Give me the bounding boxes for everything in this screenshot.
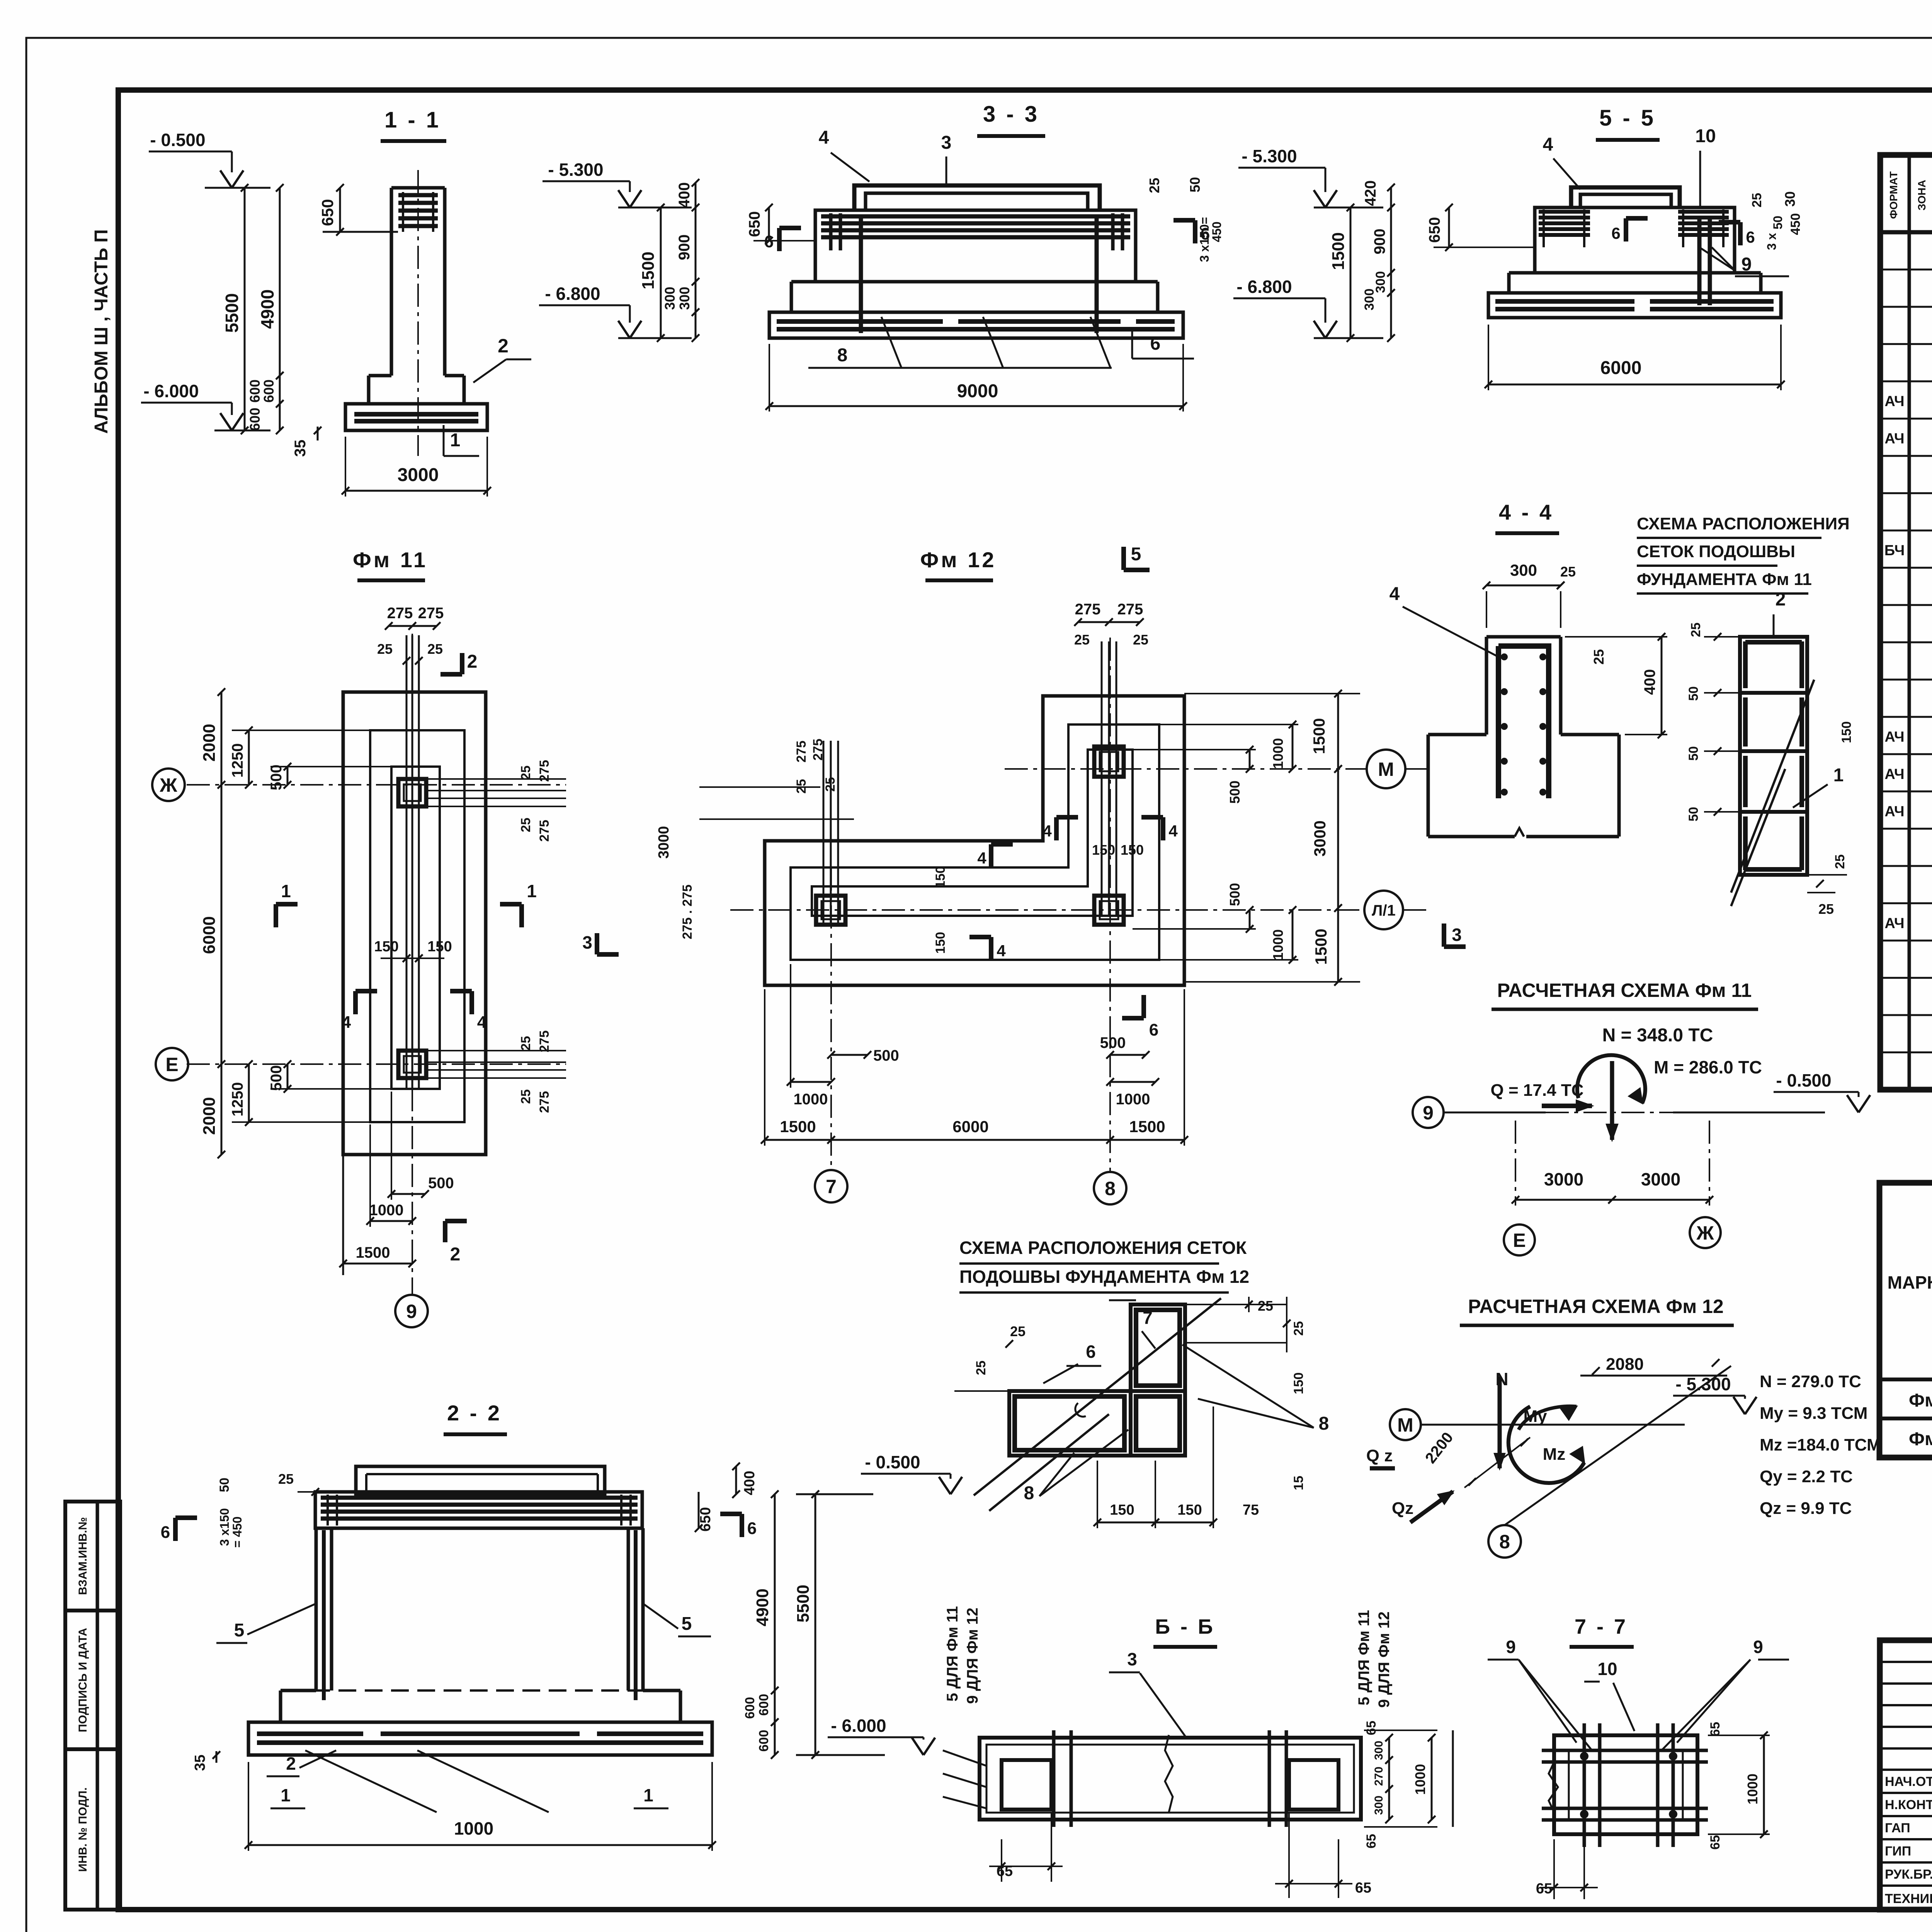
Фм 12 column squares: [1094, 747, 1124, 777]
Фм 11 step rectangle: [370, 730, 464, 1122]
section 5-5 step: [1507, 273, 1511, 293]
section markers 4 fm12: [1054, 817, 1059, 840]
svg-text:35: 35: [192, 1755, 208, 1771]
schema Фм12 diagonal leaders: [974, 1298, 1221, 1495]
dim 400 900 300 300 left: [695, 183, 697, 338]
svg-text:N = 348.0 ТС: N = 348.0 ТС: [1602, 1025, 1713, 1046]
steel table grid: [1879, 1183, 1932, 1458]
section 3-3 step: [790, 282, 793, 312]
svg-text:25: 25: [519, 1089, 533, 1104]
moment arc: [1577, 1055, 1645, 1103]
svg-text:25: 25: [823, 777, 838, 792]
svg-text:ВЗАМ.ИНВ.№: ВЗАМ.ИНВ.№: [77, 1517, 89, 1595]
svg-text:Qz: Qz: [1392, 1499, 1413, 1518]
section 1-1 slab rebar: [354, 412, 478, 417]
svg-text:25: 25: [278, 1471, 294, 1487]
svg-text:2 - 2: 2 - 2: [447, 1401, 502, 1425]
section 5-5 left mesh hatch: [1539, 210, 1590, 214]
svg-text:1500: 1500: [780, 1117, 816, 1136]
svg-text:15: 15: [1291, 1476, 1306, 1490]
section 4-4 rebar dots: [1501, 653, 1508, 660]
svg-text:7 - 7: 7 - 7: [1575, 1615, 1628, 1638]
dim 6000 bottom 5-5: [1488, 384, 1781, 386]
svg-text:75: 75: [1243, 1502, 1259, 1518]
svg-text:3 - 3: 3 - 3: [983, 102, 1039, 127]
section marker 6 fm12: [1141, 995, 1146, 1018]
section markers 4: [353, 991, 358, 1014]
axis Е Ж circles rs11: [1504, 1225, 1535, 1255]
svg-text:300: 300: [1372, 1741, 1385, 1760]
svg-text:275: 275: [537, 760, 552, 782]
svg-text:5500: 5500: [222, 293, 242, 333]
svg-text:5 ДЛЯ Фм 11: 5 ДЛЯ Фм 11: [944, 1606, 961, 1702]
schema fm12 bottom dims: [1097, 1522, 1155, 1524]
section 3-3 slab rebar: [777, 319, 943, 324]
svg-text:1000: 1000: [454, 1818, 493, 1838]
svg-text:300: 300: [1362, 289, 1377, 311]
svg-text:4: 4: [1043, 822, 1052, 840]
dim 3000 bottom: [345, 490, 487, 492]
svg-text:ФУНДАМЕНТА Фм 11: ФУНДАМЕНТА Фм 11: [1637, 570, 1812, 589]
section 2-2 slab rebar: [257, 1731, 363, 1736]
svg-text:300: 300: [677, 287, 692, 310]
svg-text:35: 35: [292, 440, 309, 457]
svg-text:АЧ: АЧ: [1884, 766, 1904, 782]
svg-text:- 6.800: - 6.800: [1236, 277, 1292, 297]
svg-text:65: 65: [1355, 1880, 1371, 1896]
svg-text:1: 1: [643, 1785, 653, 1805]
Фм 12 vertical rebar left column: [823, 741, 825, 925]
Фм 12 step L: [791, 724, 1159, 960]
section 5-5 footing slab: [1488, 293, 1781, 318]
section 1-1 step: [367, 376, 371, 404]
schema Фм11 mesh bars: [1743, 641, 1748, 688]
svg-text:500: 500: [268, 1065, 285, 1091]
svg-text:1250: 1250: [229, 743, 246, 778]
svg-text:6: 6: [1149, 1020, 1158, 1039]
svg-text:1: 1: [1833, 765, 1844, 786]
svg-text:10: 10: [1597, 1659, 1617, 1679]
schema Фм12 mesh inner lines: [1129, 1391, 1133, 1456]
svg-text:500: 500: [1100, 1034, 1126, 1051]
svg-text:1: 1: [450, 430, 461, 451]
Б-Б beam outline: [980, 1738, 1361, 1820]
svg-text:150: 150: [1110, 1502, 1134, 1518]
dim 2080 rs12: [1580, 1375, 1727, 1377]
svg-text:450: 450: [1210, 221, 1224, 242]
svg-text:N = 279.0 ТС: N = 279.0 ТС: [1760, 1372, 1861, 1391]
section 4-4 column outline: [1485, 637, 1488, 735]
7-7 rebar dots: [1580, 1752, 1588, 1760]
svg-text:50: 50: [1686, 807, 1701, 821]
svg-text:4 - 4: 4 - 4: [1499, 500, 1554, 524]
svg-text:4: 4: [1168, 822, 1178, 840]
svg-text:150: 150: [1121, 842, 1144, 858]
svg-text:4900: 4900: [753, 1588, 772, 1626]
svg-text:500: 500: [1227, 883, 1243, 906]
svg-text:7: 7: [1143, 1308, 1153, 1328]
svg-text:25: 25: [1833, 854, 1847, 869]
svg-text:5 ДЛЯ Фм 11: 5 ДЛЯ Фм 11: [1355, 1610, 1372, 1706]
svg-text:25: 25: [1750, 193, 1764, 207]
svg-text:Е: Е: [1513, 1230, 1526, 1251]
svg-text:1250: 1250: [229, 1082, 246, 1117]
schema Фм11 diagonal leader: [1731, 680, 1814, 893]
svg-text:400: 400: [676, 182, 693, 208]
svg-text:50: 50: [1686, 746, 1701, 761]
7-7 break symbol left: [1549, 1762, 1558, 1812]
section 3-3 leader diagonals: [881, 317, 901, 368]
svg-text:8: 8: [1319, 1413, 1329, 1434]
svg-text:275: 275: [1075, 601, 1101, 618]
svg-text:Фм 11: Фм 11: [1909, 1390, 1932, 1411]
svg-text:1: 1: [527, 881, 537, 901]
svg-text:Н.КОНТР.: Н.КОНТР.: [1885, 1798, 1932, 1812]
Фм 12 vertical rebar top column: [1101, 641, 1103, 916]
svg-text:РАСЧЕТНАЯ СХЕМА Фм 12: РАСЧЕТНАЯ СХЕМА Фм 12: [1468, 1296, 1723, 1317]
right side leader dims bottom: [426, 1050, 566, 1051]
svg-text:10: 10: [1695, 126, 1716, 146]
section 2-2 column rebar: [322, 1530, 326, 1700]
svg-text:25: 25: [1818, 901, 1834, 917]
section 2-2 columns: [315, 1528, 318, 1690]
svg-text:4: 4: [1543, 134, 1553, 155]
svg-text:4: 4: [997, 942, 1006, 960]
svg-text:СХЕМА РАСПОЛОЖЕНИЯ СЕТОК: СХЕМА РАСПОЛОЖЕНИЯ СЕТОК: [959, 1238, 1247, 1258]
svg-text:Л/1: Л/1: [1372, 902, 1395, 919]
svg-text:1: 1: [281, 1785, 291, 1805]
svg-text:3: 3: [1127, 1649, 1137, 1669]
axis stubs section 4-4: [1405, 768, 1430, 770]
svg-text:25: 25: [1591, 649, 1607, 665]
force N rs12: [1498, 1376, 1502, 1468]
Q arrow: [1542, 1104, 1592, 1108]
svg-text:6: 6: [1746, 228, 1755, 246]
section 2-2 capital: [356, 1466, 605, 1494]
svg-text:1500: 1500: [356, 1244, 390, 1261]
svg-text:M = 286.0 ТС: M = 286.0 ТС: [1654, 1057, 1762, 1077]
specification table grid: [1880, 155, 1932, 1090]
svg-text:8: 8: [1105, 1178, 1116, 1199]
section 1-1 column mesh hatch: [398, 193, 438, 197]
svg-text:4: 4: [1389, 584, 1400, 604]
svg-text:9: 9: [406, 1301, 417, 1322]
Б-Б openings: [1002, 1760, 1051, 1810]
dim 650 5-5: [1448, 207, 1450, 247]
svg-text:30: 30: [1782, 191, 1798, 207]
svg-text:2: 2: [286, 1753, 296, 1774]
svg-text:1000: 1000: [1116, 1091, 1150, 1108]
svg-text:150: 150: [427, 939, 452, 955]
svg-text:АЧ: АЧ: [1884, 803, 1904, 820]
section markers 6 2-2: [173, 1518, 178, 1541]
svg-text:РАСЧЕТНАЯ СХЕМА Фм 11: РАСЧЕТНАЯ СХЕМА Фм 11: [1497, 980, 1752, 1001]
Фм 11 outer footing rectangle: [343, 692, 486, 1155]
Фм 11 plan centerline vertical: [412, 634, 413, 1295]
section 2-2 leader diagonals: [305, 1750, 437, 1812]
svg-text:9: 9: [1742, 254, 1752, 275]
svg-text:1500: 1500: [639, 252, 658, 289]
svg-text:25: 25: [1291, 1321, 1306, 1336]
svg-text:3000: 3000: [1641, 1169, 1680, 1189]
svg-text:400: 400: [1641, 669, 1658, 695]
7-7 crossing bars: [1583, 1723, 1586, 1847]
svg-text:150: 150: [1092, 842, 1115, 858]
section 3-3 hanging bars: [859, 216, 863, 333]
section 2-2 band rebar: [321, 1496, 638, 1500]
axis 9 and beam line: [1413, 1097, 1444, 1128]
svg-text:1 - 1: 1 - 1: [384, 107, 441, 133]
svg-text:650: 650: [746, 211, 763, 237]
section 4-4 slab lines: [1428, 733, 1486, 736]
svg-text:65: 65: [1536, 1881, 1552, 1897]
bottom dims fm12: [831, 1054, 867, 1056]
svg-text:5 - 5: 5 - 5: [1599, 105, 1656, 131]
dim 650: [768, 207, 770, 241]
dim 1500 left: [660, 207, 662, 338]
svg-text:= 450: = 450: [230, 1517, 244, 1548]
svg-text:600: 600: [247, 379, 263, 403]
svg-text:4: 4: [819, 128, 829, 148]
svg-text:50: 50: [1771, 216, 1785, 230]
svg-text:ФОРМАТ: ФОРМАТ: [1888, 171, 1900, 219]
svg-text:150: 150: [374, 939, 398, 955]
svg-text:РУК.БР.: РУК.БР.: [1885, 1867, 1932, 1882]
svg-text:275: 275: [811, 739, 825, 761]
dim 650: [339, 188, 341, 232]
svg-text:Mz: Mz: [1543, 1445, 1566, 1464]
schema Фм11 mesh rectangle: [1740, 637, 1807, 875]
section 5-5 top band: [1535, 207, 1735, 273]
Фм 12 pedestal L: [812, 750, 1133, 916]
svg-text:25: 25: [1133, 632, 1148, 648]
svg-text:25: 25: [1689, 622, 1703, 637]
svg-text:2: 2: [467, 651, 478, 672]
section 3-3 band rebar: [821, 214, 1130, 219]
svg-text:25: 25: [519, 1036, 533, 1051]
svg-text:275: 275: [537, 1031, 552, 1053]
svg-text:600: 600: [247, 408, 263, 431]
svg-text:5: 5: [234, 1620, 245, 1641]
Б-Б break symbol: [1165, 1735, 1173, 1812]
svg-text:9000: 9000: [957, 381, 998, 401]
svg-text:3000: 3000: [398, 465, 439, 485]
svg-text:Q = 17.4 ТС: Q = 17.4 ТС: [1491, 1081, 1584, 1100]
right dims fm12: [1337, 694, 1339, 982]
svg-text:275: 275: [387, 605, 413, 622]
axes rs12: [1390, 1409, 1421, 1440]
svg-text:4: 4: [977, 849, 986, 867]
svg-text:65: 65: [1708, 1722, 1723, 1736]
svg-text:СЕТОК ПОДОШВЫ: СЕТОК ПОДОШВЫ: [1637, 542, 1795, 561]
section 4-4 stirrup: [1498, 646, 1549, 798]
svg-text:300: 300: [1510, 561, 1537, 579]
svg-text:500: 500: [428, 1175, 454, 1192]
svg-text:Mz =184.0 ТСМ: Mz =184.0 ТСМ: [1760, 1435, 1881, 1454]
section 1-1 footing slab: [345, 404, 487, 430]
section markers 1: [274, 904, 278, 927]
section 3-3 footing slab: [769, 312, 1183, 338]
svg-text:25: 25: [1560, 564, 1576, 580]
svg-text:6: 6: [747, 1519, 757, 1538]
svg-text:АЧ: АЧ: [1884, 393, 1904, 410]
svg-text:ИНВ. № ПОДЛ.: ИНВ. № ПОДЛ.: [77, 1787, 89, 1872]
section marker 2 top: [460, 653, 464, 674]
right side leader dims top: [426, 778, 566, 780]
svg-text:6: 6: [1611, 224, 1620, 242]
svg-text:5500: 5500: [794, 1585, 813, 1622]
svg-text:АЛЬБОМ Ш , ЧАСТЬ П: АЛЬБОМ Ш , ЧАСТЬ П: [91, 229, 112, 434]
svg-text:НАЧ.ОТЭП: НАЧ.ОТЭП: [1885, 1774, 1932, 1789]
svg-text:275: 275: [537, 820, 552, 842]
svg-text:25: 25: [974, 1361, 988, 1375]
svg-text:6: 6: [161, 1523, 170, 1542]
svg-text:25: 25: [427, 641, 443, 657]
svg-text:ГИП: ГИП: [1885, 1844, 1911, 1859]
svg-text:9: 9: [1423, 1102, 1434, 1124]
svg-text:5: 5: [682, 1614, 692, 1634]
svg-text:ЗОНА: ЗОНА: [1916, 180, 1928, 210]
svg-text:- 6.800: - 6.800: [545, 284, 600, 304]
svg-text:9 ДЛЯ Фм 12: 9 ДЛЯ Фм 12: [964, 1607, 981, 1704]
svg-text:8: 8: [1499, 1531, 1510, 1553]
svg-text:2080: 2080: [1606, 1355, 1644, 1374]
section 5-5 right mesh hatch: [1678, 210, 1729, 214]
svg-text:9 ДЛЯ Фм 12: 9 ДЛЯ Фм 12: [1376, 1611, 1393, 1708]
section marker 3 right: [595, 933, 599, 954]
Фм 11 vertical rebar lines: [406, 635, 408, 1089]
svg-text:Фм 12: Фм 12: [1909, 1429, 1932, 1449]
svg-text:МАРКА ЭЛЕМЕНТА: МАРКА ЭЛЕМЕНТА: [1888, 1272, 1932, 1293]
svg-text:- 6.000: - 6.000: [831, 1716, 886, 1736]
svg-text:3: 3: [1452, 925, 1462, 945]
svg-text:3 x150=: 3 x150=: [1197, 217, 1211, 262]
svg-text:420: 420: [1362, 180, 1379, 206]
svg-text:650: 650: [318, 199, 337, 226]
dim 5500 vertical: [244, 188, 246, 430]
svg-text:500: 500: [268, 765, 285, 791]
svg-text:1000: 1000: [1412, 1764, 1428, 1795]
right dims 2-2: [735, 1466, 737, 1494]
section 2-2 footing slab: [248, 1722, 712, 1755]
svg-text:450: 450: [1788, 213, 1803, 235]
svg-text:Ж: Ж: [159, 774, 177, 796]
svg-text:6000: 6000: [1600, 358, 1642, 378]
left sidebar stamp boxes: [65, 1502, 120, 1910]
svg-text:АЧ: АЧ: [1884, 729, 1904, 745]
svg-text:25: 25: [1258, 1298, 1273, 1314]
svg-text:4: 4: [477, 1013, 487, 1032]
svg-text:1500: 1500: [1310, 718, 1328, 754]
svg-text:3: 3: [582, 932, 592, 952]
svg-text:Е: Е: [165, 1054, 178, 1075]
svg-text:25: 25: [519, 765, 533, 780]
axis Ж: [187, 784, 566, 786]
svg-text:25: 25: [1074, 632, 1090, 648]
svg-text:4: 4: [342, 1013, 351, 1032]
svg-text:65: 65: [1708, 1835, 1723, 1850]
svg-text:275: 275: [1117, 601, 1143, 618]
svg-text:АЧ: АЧ: [1884, 431, 1904, 447]
svg-text:- 5.300: - 5.300: [1675, 1374, 1731, 1394]
svg-text:900: 900: [676, 235, 693, 260]
svg-text:3000: 3000: [1311, 820, 1329, 856]
svg-text:Mу = 9.3 ТСМ: Mу = 9.3 ТСМ: [1760, 1404, 1867, 1423]
svg-text:1500: 1500: [1312, 929, 1330, 964]
section 3-3 mesh hat: [854, 185, 1100, 210]
svg-text:7: 7: [826, 1176, 837, 1197]
svg-text:6: 6: [764, 232, 774, 251]
svg-text:6000: 6000: [952, 1117, 988, 1136]
dim 275 275 top: [389, 625, 437, 627]
svg-text:6000: 6000: [200, 916, 219, 954]
section 5-5 slab rebar: [1495, 299, 1634, 304]
svg-text:270: 270: [1372, 1767, 1385, 1786]
svg-text:2: 2: [1776, 589, 1786, 610]
svg-text:М: М: [1397, 1414, 1413, 1436]
svg-text:Q z: Q z: [1366, 1446, 1393, 1465]
svg-text:275: 275: [537, 1091, 552, 1113]
svg-text:1000: 1000: [794, 1091, 828, 1108]
dim 4900 600 vertical: [279, 188, 281, 430]
svg-text:650: 650: [1426, 217, 1443, 243]
svg-text:600: 600: [757, 1694, 771, 1716]
svg-text:9: 9: [1753, 1637, 1763, 1657]
svg-text:25: 25: [377, 641, 393, 657]
svg-text:5: 5: [1131, 544, 1141, 565]
dim 1000 bottom 2-2: [248, 1844, 712, 1846]
section 5-5 mesh hat: [1571, 187, 1680, 207]
svg-text:50: 50: [1686, 686, 1701, 701]
section 1-1 centerline: [417, 170, 419, 456]
svg-text:Фм 12: Фм 12: [920, 548, 996, 572]
svg-text:ТЕХНИК: ТЕХНИК: [1885, 1891, 1932, 1906]
bottom dims 500 1000 1500: [342, 1155, 344, 1275]
svg-text:ПОДПИСЬ И ДАТА: ПОДПИСЬ И ДАТА: [77, 1628, 89, 1732]
svg-text:50: 50: [217, 1478, 232, 1492]
svg-text:СХЕМА РАСПОЛОЖЕНИЯ: СХЕМА РАСПОЛОЖЕНИЯ: [1637, 514, 1850, 533]
svg-text:3 x150: 3 x150: [218, 1508, 231, 1546]
svg-text:- 0.500: - 0.500: [150, 130, 205, 150]
svg-text:300: 300: [662, 287, 678, 310]
svg-text:1000: 1000: [1745, 1774, 1760, 1804]
svg-text:275: 275: [794, 741, 809, 763]
svg-text:Qу = 2.2 ТС: Qу = 2.2 ТС: [1760, 1467, 1853, 1486]
svg-text:275: 275: [418, 605, 444, 622]
section 5-5 hanging bars: [1697, 216, 1702, 305]
svg-text:1: 1: [281, 881, 291, 901]
svg-text:600: 600: [261, 379, 277, 403]
svg-text:2000: 2000: [200, 724, 219, 762]
section 1-1 column outline: [390, 188, 393, 376]
svg-text:Ж: Ж: [1696, 1222, 1714, 1244]
svg-text:2000: 2000: [200, 1097, 219, 1135]
svg-text:М: М: [1378, 759, 1394, 780]
svg-text:300: 300: [1372, 1796, 1385, 1815]
svg-text:150: 150: [933, 866, 948, 888]
Б-Б crossing bars: [1052, 1730, 1056, 1827]
svg-text:65: 65: [1364, 1721, 1379, 1735]
svg-text:65: 65: [1364, 1834, 1379, 1849]
svg-text:3000: 3000: [656, 826, 672, 859]
title block frame: [1880, 1640, 1932, 1910]
svg-text:25: 25: [1010, 1323, 1026, 1339]
svg-text:- 0.500: - 0.500: [865, 1452, 920, 1472]
svg-text:- 5.300: - 5.300: [548, 160, 603, 180]
svg-text:6: 6: [1150, 333, 1161, 354]
dim 300 top 4-4: [1486, 585, 1561, 587]
section markers 6 5-5: [1624, 218, 1628, 241]
